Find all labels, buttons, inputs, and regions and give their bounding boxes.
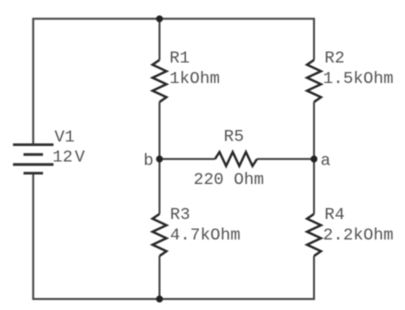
resistor R2 [307, 60, 321, 102]
wire: middle branch below R3 [159, 256, 161, 299]
svg-text:R4: R4 [325, 206, 345, 225]
svg-text:R2: R2 [325, 50, 345, 69]
wire: R5 to node a [257, 158, 314, 160]
resistor R4 [307, 214, 321, 256]
svg-text:b: b [144, 152, 154, 171]
wire: middle branch top lead to R1 [159, 19, 161, 60]
junction bottom node [156, 296, 163, 303]
svg-text:R5: R5 [224, 128, 244, 147]
svg-text:2.2kOhm: 2.2kOhm [323, 227, 394, 246]
battery V1 [13, 145, 54, 174]
wire: V1 bottom lead, bottom rail, R4 bottom lead [33, 173, 314, 299]
svg-text:R1: R1 [170, 50, 190, 69]
svg-text:V1: V1 [55, 129, 75, 148]
resistor R5 [215, 152, 257, 166]
node b junction [156, 156, 163, 163]
svg-text:220 Ohm: 220 Ohm [194, 171, 265, 190]
svg-text:a: a [321, 152, 331, 171]
svg-text:V: V [75, 148, 85, 167]
svg-text:12: 12 [53, 148, 73, 167]
svg-text:1.5kOhm: 1.5kOhm [323, 70, 394, 89]
svg-text:1kOhm: 1kOhm [170, 70, 220, 89]
junction top node [156, 15, 163, 22]
wire: V1 top lead, top rail, R2 top lead [33, 19, 314, 145]
wire: middle branch R1 to R3 through node b [159, 102, 161, 214]
resistor R3 [153, 214, 167, 256]
node a junction [311, 156, 318, 163]
resistor R1 [153, 60, 167, 102]
wire: right branch R2 to R4 through node a [313, 102, 315, 214]
svg-text:4.7kOhm: 4.7kOhm [170, 227, 241, 246]
svg-text:R3: R3 [170, 206, 190, 225]
wire: node b to R5 [160, 158, 216, 160]
